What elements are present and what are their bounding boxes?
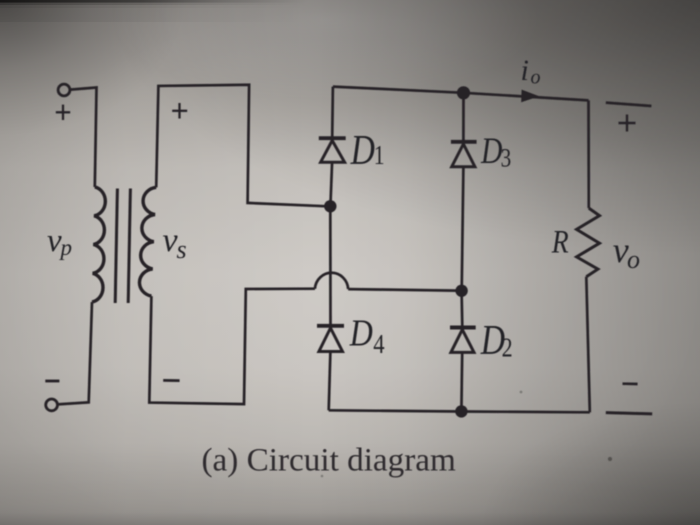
label D1 [350, 127, 385, 173]
transformer secondary winding [139, 187, 156, 296]
wire: crossover hop over left column [315, 273, 348, 289]
svg-text:4: 4 [373, 330, 385, 359]
plus sign: secondary (+) [172, 103, 187, 119]
speck [321, 391, 612, 478]
minus sign: secondary (-) [163, 379, 179, 382]
node: top rail junction dot [457, 86, 470, 99]
resistor R [577, 208, 600, 277]
plus sign: primary (+) [56, 105, 70, 120]
svg-text:3: 3 [501, 145, 512, 174]
wire: primary winding bottom to terminal [58, 302, 93, 404]
diode D3 [451, 142, 477, 291]
label vp [47, 223, 72, 260]
wire: bottom rail [329, 410, 590, 412]
node A junction dot [324, 200, 336, 212]
svg-text:2: 2 [502, 333, 513, 363]
wire: node to D3 [462, 93, 465, 142]
minus sign: primary (-) [45, 380, 59, 383]
wire: secondary top to bridge node A [156, 85, 324, 206]
plus sign: output (+) [619, 115, 636, 132]
caption [202, 442, 457, 479]
wire: resistor bottom to bottom rail [586, 277, 590, 413]
label D3 [480, 131, 511, 173]
wire: top rail corner down to resistor [587, 100, 590, 208]
wire: bridge left column top [331, 87, 334, 138]
label vs [163, 222, 187, 264]
arrow: output current direction [521, 90, 539, 103]
label io [521, 54, 541, 88]
transformer core [115, 189, 130, 304]
wire: node A down through crossover gap to D4 [329, 206, 332, 325]
svg-text:o: o [627, 245, 640, 274]
svg-text:D: D [480, 131, 502, 172]
wire: primary top terminal to winding [70, 88, 96, 188]
diode D4 [317, 326, 344, 411]
node B junction dot [455, 285, 467, 297]
wire: node B to D2 [460, 291, 463, 327]
svg-text:s: s [177, 235, 187, 264]
wire: top rail [333, 87, 589, 101]
transformer primary winding [92, 187, 105, 302]
svg-text:p: p [59, 235, 73, 260]
svg-text:D: D [350, 127, 375, 173]
svg-text:1: 1 [374, 141, 385, 171]
diode D2 [450, 328, 476, 412]
minus sign: output (-) [623, 382, 638, 385]
terminal bar: output negative [606, 413, 652, 414]
label R [551, 223, 569, 260]
svg-text:o: o [531, 66, 541, 88]
label D2 [480, 317, 513, 363]
label vo [613, 230, 640, 274]
svg-text:(a) Circuit diagram: (a) Circuit diagram [202, 442, 457, 479]
terminal: primary bottom (open circle) [46, 399, 58, 411]
terminal bar: output positive [606, 103, 652, 106]
svg-text:D: D [349, 312, 373, 354]
label D4 [349, 312, 385, 359]
terminal: primary top (open circle) [58, 84, 70, 96]
node: bottom rail junction dot [455, 405, 467, 417]
wire: secondary bottom to crossover [149, 289, 315, 404]
svg-text:i: i [521, 54, 529, 87]
diode D1 [319, 138, 346, 206]
wire: crossover to bridge node B [348, 289, 456, 291]
svg-text:R: R [551, 223, 569, 260]
